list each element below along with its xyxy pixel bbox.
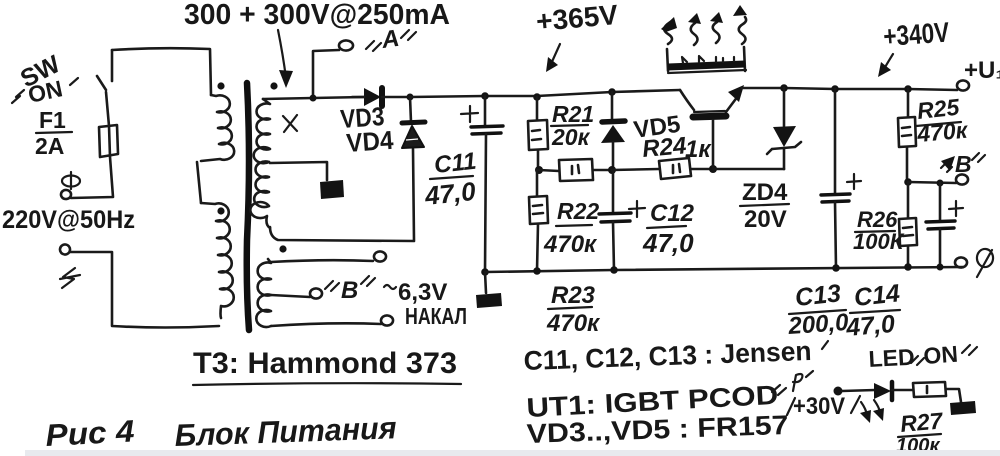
- label B terminal with arrow and quotes: [941, 151, 985, 177]
- wire heater mid tap: [271, 295, 310, 297]
- plus sign C12: [629, 201, 645, 217]
- label C14 47,0: [844, 279, 901, 342]
- terminal mains N: [60, 244, 70, 254]
- secondary center tap wire: [270, 162, 327, 180]
- terminal heater mid: [310, 288, 322, 298]
- svg-text:B: B: [341, 277, 358, 304]
- label X tap mark: [283, 115, 297, 132]
- node junction VD5 C12 mid: [608, 166, 616, 174]
- label ZD4 20V: [740, 179, 789, 233]
- svg-text:+30V: +30V: [793, 393, 845, 420]
- diode VD3: [352, 88, 410, 106]
- svg-text:НАКАЛ: НАКАЛ: [405, 303, 467, 329]
- svg-text:2A: 2A: [35, 133, 64, 159]
- capacitor C13: [821, 89, 850, 268]
- label R22 470k: [543, 198, 599, 258]
- label A with quotes: [366, 25, 416, 54]
- wire through fuse: [71, 126, 113, 198]
- svg-text:C13: C13: [794, 279, 843, 312]
- node junction C14 top: [937, 180, 944, 187]
- switch SW lever: [97, 76, 106, 90]
- stray tick after Jensen: [822, 341, 828, 349]
- svg-text:200,0: 200,0: [787, 309, 850, 340]
- wire mains bottom to primary: [70, 252, 219, 328]
- svg-text:470к: 470к: [543, 231, 598, 258]
- node junction R26 bottom: [904, 263, 912, 271]
- svg-text:ZD4: ZD4: [742, 179, 788, 206]
- node junction C11 top: [481, 92, 489, 100]
- label R23 470k below rail: [546, 282, 601, 337]
- svg-text:F1: F1: [39, 107, 66, 133]
- wire node B to terminal: [908, 182, 956, 183]
- LED ground pad: [950, 401, 976, 415]
- LED diode: [874, 382, 913, 400]
- svg-text:LED: LED: [868, 344, 915, 372]
- wire switch to fuse: [106, 92, 109, 126]
- zener diode ZD4: [767, 88, 801, 169]
- resistor R26: [899, 182, 917, 267]
- svg-text:6,3V: 6,3V: [398, 279, 447, 306]
- wire top rail VD3 to C11 to R21: [410, 96, 537, 97]
- wire secondary bottom to VD4 anode: [270, 149, 414, 241]
- node junction C14 bottom: [937, 264, 944, 271]
- terminal +U1: [957, 80, 969, 90]
- node junction A on rail: [310, 95, 317, 102]
- plus sign C14: [949, 201, 963, 216]
- neutral squiggle mark: [60, 268, 80, 288]
- transistor UT1 gate bar: [693, 116, 726, 117]
- resistor R23 horizontal: [559, 159, 612, 181]
- node junction gate: [709, 165, 717, 173]
- svg-text:C14: C14: [853, 279, 902, 312]
- svg-text:470к: 470к: [546, 310, 601, 337]
- svg-text:R22: R22: [557, 198, 599, 224]
- svg-text:+365V: +365V: [535, 0, 620, 37]
- primary winding lower section: [201, 203, 234, 318]
- terminal mains L: [61, 190, 71, 199]
- capacitor C12: [599, 170, 631, 270]
- polarity dot primary mid: [217, 207, 224, 214]
- svg-text:300 + 300V@250mA: 300 + 300V@250mA: [184, 0, 450, 31]
- label LED ON: [868, 341, 977, 372]
- main ground pad: [476, 293, 502, 308]
- polarity dot heater: [279, 245, 286, 252]
- arrow +340V: [878, 54, 893, 77]
- wire top rail to +U1 terminal: [908, 89, 957, 90]
- wire top rail R21 to VD5 to transistor: [537, 90, 680, 96]
- label +30V with slashes and arrows: [787, 393, 884, 423]
- node junction VD5 top: [608, 88, 616, 96]
- wire heater bottom lead: [271, 323, 381, 326]
- node junction R21 R23: [535, 166, 543, 174]
- wire top rail emitter to ZD4 to C13: [742, 88, 908, 89]
- capacitor C11: [471, 96, 503, 272]
- plus sign C11: [461, 106, 478, 122]
- label R21 20k: [551, 101, 594, 150]
- resistor R25: [898, 89, 916, 182]
- resistor R21: [528, 97, 548, 170]
- wire C11 bottom to ground: [485, 272, 486, 293]
- transistor UT1 emitter lead with arrow: [726, 85, 744, 112]
- diode VD4: [402, 97, 425, 148]
- transformer T3 core: [247, 83, 249, 330]
- svg-text:47,0: 47,0: [422, 176, 477, 211]
- plus sign C13: [847, 174, 861, 189]
- svg-text:220V@50Hz: 220V@50Hz: [2, 206, 135, 234]
- svg-text:Рис 4: Рис 4: [45, 413, 136, 453]
- wire mains top from switch to transformer primary: [112, 48, 211, 95]
- wire gate node to ZD4: [713, 168, 784, 171]
- svg-text:R27: R27: [899, 407, 945, 437]
- resistor R24 horizontal: [659, 158, 713, 179]
- svg-text:ON: ON: [923, 341, 959, 369]
- svg-text:B: B: [955, 151, 972, 177]
- label 6,3V: [384, 279, 447, 306]
- svg-text:VD4: VD4: [345, 125, 394, 158]
- scanner gray bar bottom: [25, 450, 1000, 456]
- primary winding jog: [197, 162, 201, 203]
- node junction C11 bottom: [481, 268, 489, 276]
- polarity dot secondary top: [270, 82, 277, 89]
- terminal B: [956, 174, 968, 184]
- label R27 100k: [896, 407, 945, 456]
- label R25 470k: [915, 94, 969, 147]
- label R24 1k: [641, 132, 712, 163]
- terminal heater bottom: [381, 315, 393, 325]
- svg-text:47,0: 47,0: [844, 310, 896, 342]
- label ON with hand quotes: [12, 75, 78, 108]
- resistor R27: [913, 382, 961, 402]
- heater winding: [256, 259, 271, 327]
- svg-text:C11, C12, C13 : Jensen: C11, C12, C13 : Jensen: [523, 336, 812, 376]
- diode VD5: [601, 92, 625, 170]
- arrow +365V: [546, 44, 560, 72]
- node A branch wire: [313, 50, 339, 98]
- fuse F1 body: [99, 125, 118, 157]
- svg-text:C12: C12: [650, 200, 695, 227]
- terminal A: [339, 40, 353, 50]
- transistor UT1 collector lead: [680, 90, 694, 110]
- wire mid rail left: [539, 170, 559, 171]
- label F1 2A: [35, 107, 72, 159]
- label C12 47,0: [642, 200, 695, 258]
- heatsink body: [667, 47, 746, 73]
- svg-text:47,0: 47,0: [642, 228, 694, 258]
- capacitor C14: [926, 183, 955, 267]
- label R26 100k: [853, 207, 905, 254]
- label C11 47,0: [422, 148, 477, 211]
- node junction C13 top: [831, 85, 839, 93]
- node junction VD4 top: [407, 94, 414, 101]
- transistor UT1 gate lead: [712, 120, 715, 169]
- resistor R22: [529, 170, 548, 271]
- svg-text:20к: 20к: [551, 124, 591, 150]
- svg-text:Блок Питания: Блок Питания: [174, 410, 397, 453]
- node junction ZD4 top: [780, 84, 788, 92]
- node junction R25 top: [904, 85, 912, 93]
- wire top rail secondary to VD3: [263, 97, 364, 99]
- arrow from 300V label to secondary: [278, 30, 293, 88]
- label P mark with quotes: [772, 371, 813, 395]
- center tap ground pad: [320, 180, 344, 199]
- svg-text:A: A: [379, 25, 401, 54]
- LED circuit start dot: [834, 387, 843, 396]
- svg-text:100К: 100К: [853, 229, 905, 254]
- node junction R22 bottom: [533, 267, 541, 275]
- svg-text:470к: 470к: [915, 117, 969, 147]
- phase zero symbol: [977, 249, 993, 277]
- svg-text:20V: 20V: [744, 206, 787, 233]
- label B heater with quotes: [325, 276, 375, 304]
- terminal heater top: [374, 251, 386, 261]
- svg-text:R23: R23: [551, 282, 596, 309]
- wire switch upper lead: [111, 50, 114, 81]
- svg-text:+U₁: +U₁: [964, 57, 1000, 84]
- secondary winding upper half: [254, 99, 270, 163]
- svg-text:C11: C11: [433, 148, 478, 179]
- svg-text:T3: Hammond 373: T3: Hammond 373: [193, 347, 457, 380]
- node junction R21 top: [533, 93, 541, 101]
- label C13 200,0: [787, 279, 850, 340]
- label T3 Hammond 373: [193, 347, 461, 385]
- bottom rail: [485, 267, 963, 272]
- wire heater top lead: [271, 260, 373, 262]
- polarity dot primary top: [217, 82, 224, 89]
- primary winding upper section: [201, 95, 234, 161]
- phase symbol above terminal: [62, 172, 80, 189]
- secondary winding lower half: [250, 162, 270, 229]
- svg-text:+340V: +340V: [882, 16, 950, 52]
- node junction B: [904, 178, 912, 186]
- wire LED anode: [842, 390, 875, 391]
- node junction C13 bottom: [832, 264, 840, 272]
- wire mid rail to R24: [612, 169, 659, 170]
- node junction C12 bottom: [610, 266, 618, 274]
- terminal 0V bottom right: [955, 257, 967, 267]
- heat wavy arrows: [661, 5, 747, 45]
